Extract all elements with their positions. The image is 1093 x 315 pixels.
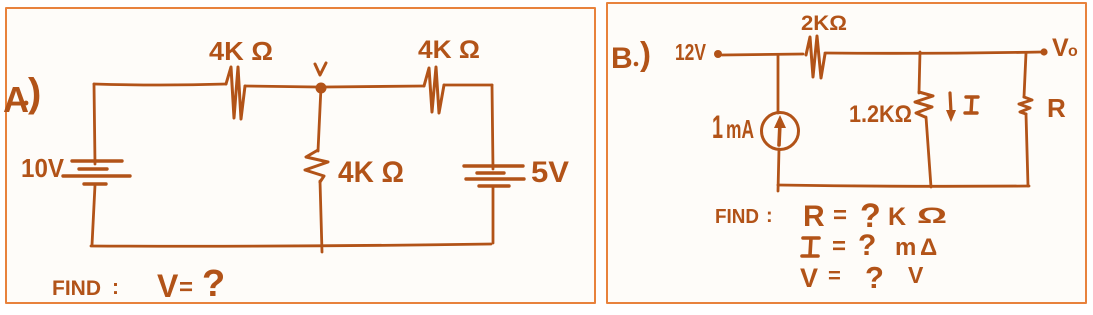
svg-text:o: o xyxy=(1068,43,1078,60)
wire top-mid-right A xyxy=(325,86,424,87)
wire top-mid A xyxy=(245,86,317,87)
wire right branch lower B xyxy=(1026,114,1028,186)
wire left A xyxy=(94,84,95,164)
svg-text:K: K xyxy=(888,203,906,231)
svg-text:4K Ω: 4K Ω xyxy=(418,36,480,64)
svg-text:Δ: Δ xyxy=(920,234,937,261)
svg-text:5V: 5V xyxy=(531,156,569,189)
wire current-source upper xyxy=(777,55,780,113)
svg-text:10V: 10V xyxy=(21,153,65,183)
svg-text:4K Ω: 4K Ω xyxy=(338,156,404,189)
wire middle branch upper B xyxy=(919,52,920,93)
svg-text:2KΩ: 2KΩ xyxy=(801,12,847,35)
wire top-left A xyxy=(94,84,226,85)
svg-text:4K Ω: 4K Ω xyxy=(209,36,273,66)
node 12V dot xyxy=(714,50,722,58)
battery B2 5V xyxy=(464,166,524,186)
node V dot xyxy=(316,83,327,94)
wire top-right B xyxy=(825,52,1041,53)
wire bottom A xyxy=(91,244,491,246)
svg-text:R: R xyxy=(803,200,825,233)
wire right-lower A xyxy=(492,187,495,243)
label B.) xyxy=(611,35,651,75)
panel B frame xyxy=(607,3,1086,303)
svg-text:A: A xyxy=(3,79,29,120)
resistor R2 4K xyxy=(424,67,444,113)
svg-text:FIND: FIND xyxy=(715,206,759,228)
current source I1 circle xyxy=(762,113,799,150)
current source arrow xyxy=(779,123,780,145)
battery B1 10V xyxy=(63,161,130,184)
svg-text:?: ? xyxy=(858,229,876,262)
svg-text:): ) xyxy=(28,71,41,115)
label I xyxy=(965,97,978,113)
svg-text:B: B xyxy=(611,42,633,75)
label v xyxy=(315,63,326,75)
node Vo dot xyxy=(1040,48,1047,55)
wire left-lower A xyxy=(92,185,95,245)
svg-text:R: R xyxy=(1047,93,1066,123)
panel A frame xyxy=(6,8,595,303)
svg-text:=: = xyxy=(832,233,846,260)
svg-text:1.2KΩ: 1.2KΩ xyxy=(849,101,912,128)
svg-text:=: = xyxy=(179,274,193,301)
wire current-source lower xyxy=(778,149,779,191)
wire bottom B xyxy=(778,185,1029,186)
resistor 1.2K xyxy=(915,92,933,117)
svg-text:mA: mA xyxy=(726,114,754,144)
svg-text:1: 1 xyxy=(712,109,723,145)
svg-text:=: = xyxy=(828,263,841,288)
resistor R xyxy=(1019,97,1032,114)
wire right A xyxy=(492,85,493,169)
svg-text:12V: 12V xyxy=(675,39,706,65)
label A.) xyxy=(3,71,41,120)
svg-text::: : xyxy=(766,205,773,227)
wire top-left B xyxy=(722,54,803,55)
wire middle branch lower A xyxy=(320,181,322,252)
resistor R3 4K xyxy=(305,150,328,182)
svg-text:=: = xyxy=(833,202,847,229)
text I = ? mA xyxy=(802,238,819,256)
svg-text:?: ? xyxy=(202,263,225,305)
svg-text:?: ? xyxy=(865,260,884,295)
current arrow I xyxy=(950,93,951,112)
wire middle branch lower B xyxy=(926,117,931,187)
svg-text:V: V xyxy=(800,263,818,293)
svg-text:V: V xyxy=(157,268,179,304)
svg-text:V: V xyxy=(908,262,924,288)
resistor 2K xyxy=(806,36,825,78)
svg-text:): ) xyxy=(640,35,651,72)
svg-text:V: V xyxy=(1052,34,1069,62)
wire right branch upper B xyxy=(1024,53,1026,97)
svg-text:FIND: FIND xyxy=(52,277,101,300)
resistor R1 4K xyxy=(226,67,245,119)
wire middle branch upper A xyxy=(318,87,321,151)
svg-text::: : xyxy=(112,276,119,299)
label 1mA xyxy=(712,109,754,145)
svg-text:m: m xyxy=(895,234,916,261)
svg-text:Ω: Ω xyxy=(917,203,947,228)
wire top-right A xyxy=(444,84,492,87)
